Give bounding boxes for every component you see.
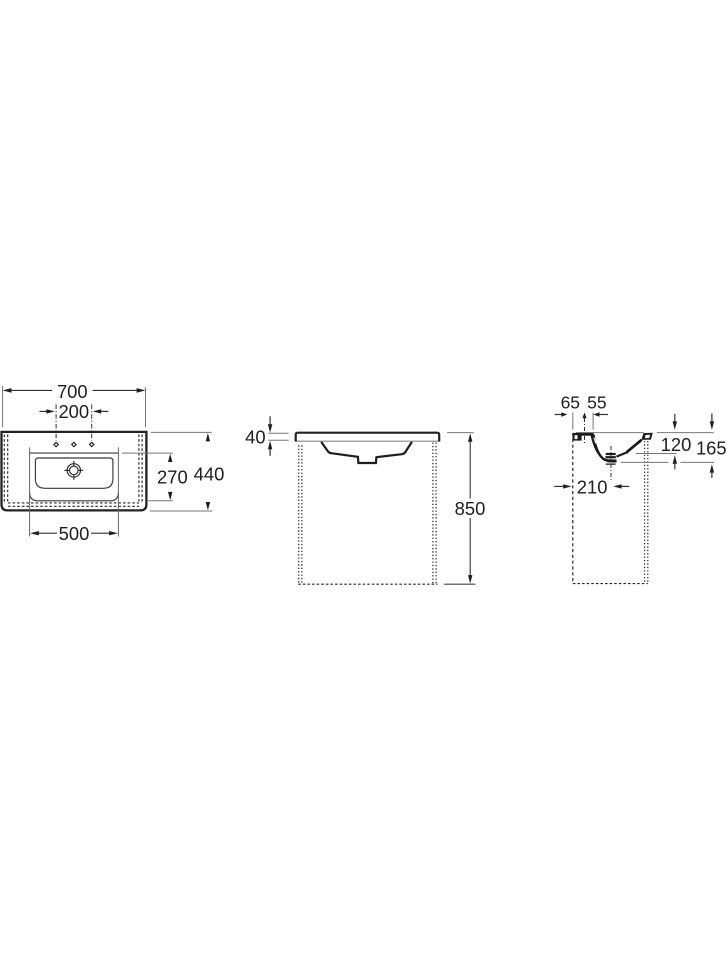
svg-text:165: 165 bbox=[696, 438, 727, 459]
svg-text:700: 700 bbox=[57, 381, 88, 402]
svg-text:65: 65 bbox=[561, 392, 580, 412]
svg-text:200: 200 bbox=[58, 401, 89, 422]
svg-text:500: 500 bbox=[59, 523, 90, 544]
svg-text:850: 850 bbox=[455, 498, 486, 519]
svg-text:440: 440 bbox=[194, 464, 225, 485]
svg-text:120: 120 bbox=[661, 434, 692, 455]
svg-text:210: 210 bbox=[577, 477, 608, 498]
svg-text:40: 40 bbox=[245, 427, 265, 448]
svg-text:270: 270 bbox=[157, 467, 188, 488]
svg-text:55: 55 bbox=[587, 392, 606, 412]
